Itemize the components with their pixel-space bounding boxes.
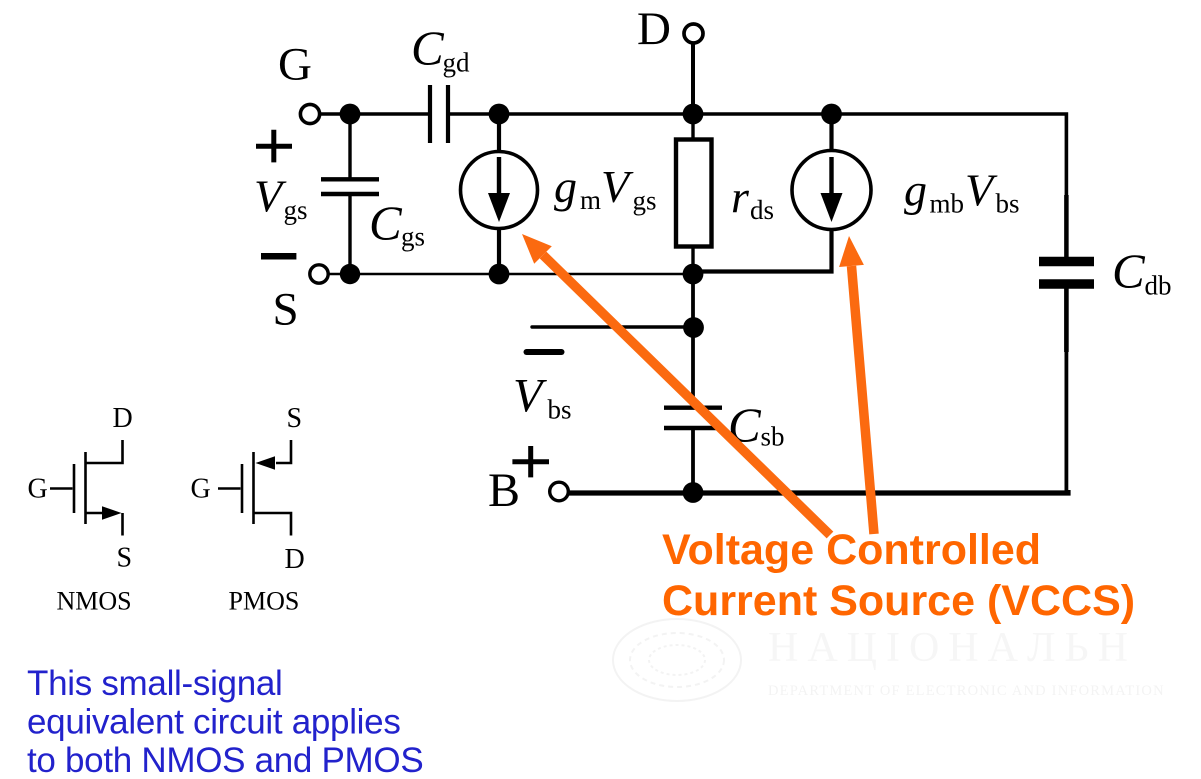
svg-text:D: D <box>113 403 133 434</box>
wire bulk vertical to Csb and B rail <box>691 274 695 407</box>
label Vgs <box>254 171 308 226</box>
transistor Q2 PMOS symbol <box>218 440 291 536</box>
watermark text <box>768 625 1165 699</box>
svg-text:PMOS: PMOS <box>229 587 300 616</box>
node Vbs stub junction <box>683 317 704 338</box>
svg-text:C: C <box>1112 244 1146 299</box>
wire top rail from G node to right corner down to Cdb <box>318 114 1066 257</box>
capacitor C_gd <box>430 85 448 143</box>
watermark seal <box>613 619 741 701</box>
annotation arrow to gmb source <box>839 236 874 534</box>
node top gmb junction <box>821 104 842 125</box>
wire right branch Cdb leads <box>1064 195 1069 257</box>
svg-text:bs: bs <box>548 395 572 425</box>
label Vbs plus sign <box>512 446 549 477</box>
wire B bottom rail <box>569 490 1069 493</box>
label gmVgs <box>554 161 657 216</box>
resistor r_ds <box>676 140 712 247</box>
label Vbs <box>513 370 572 425</box>
annotation arrow to gm source <box>522 234 830 535</box>
svg-text:G: G <box>191 474 211 505</box>
terminal S <box>310 265 328 283</box>
svg-text:r: r <box>731 171 750 222</box>
capacitor C_sb <box>664 408 722 428</box>
wire D stub <box>691 44 695 115</box>
label C_db <box>1112 244 1172 301</box>
svg-text:NMOS: NMOS <box>57 587 132 616</box>
wire S bottom rail <box>327 273 693 275</box>
svg-text:S: S <box>287 403 303 434</box>
wire Vbs reference stub <box>532 325 693 328</box>
capacitor C_gs <box>321 179 379 194</box>
label gmbVbs <box>904 165 1020 219</box>
node B rail junction <box>683 482 704 503</box>
terminal G <box>300 104 319 123</box>
svg-text:D: D <box>637 3 671 55</box>
wire rds leads <box>691 114 694 274</box>
current source U1 gmVgs <box>461 152 538 229</box>
svg-text:gd: gd <box>443 48 471 78</box>
svg-text:gs: gs <box>401 222 425 252</box>
svg-text:V: V <box>254 171 287 222</box>
svg-text:g: g <box>904 165 927 216</box>
node bottom rds junction <box>683 264 704 285</box>
svg-text:C: C <box>369 196 403 251</box>
annotation text VCCS <box>662 526 1135 625</box>
terminal D <box>684 24 703 43</box>
svg-text:C: C <box>411 21 445 76</box>
wire gm source leads <box>497 114 501 274</box>
label r_ds <box>731 171 774 225</box>
svg-text:mb: mb <box>930 189 965 219</box>
svg-text:ds: ds <box>750 195 774 225</box>
terminal B <box>550 482 569 501</box>
label C_sb <box>728 398 785 453</box>
label C_gd <box>411 21 470 78</box>
node bottom gm junction <box>489 264 510 285</box>
svg-text:gs: gs <box>284 195 308 225</box>
svg-text:НАЦIОНАЛЬН: НАЦIОНАЛЬН <box>768 625 1137 671</box>
svg-text:This small-signal: This small-signal <box>27 664 283 703</box>
node top Cgd-gm junction <box>489 104 510 125</box>
node G-rail junction <box>340 104 361 125</box>
node bottom S-Cgs junction <box>340 264 360 284</box>
svg-text:Current Source (VCCS): Current Source (VCCS) <box>662 577 1135 625</box>
svg-text:S: S <box>273 284 299 336</box>
wire Cgs leads <box>348 114 351 274</box>
wire gmb source leads and bottom jog <box>693 114 832 272</box>
svg-text:equivalent circuit applies: equivalent circuit applies <box>27 703 401 742</box>
svg-text:to both NMOS and PMOS: to both NMOS and PMOS <box>27 741 423 779</box>
note text blue <box>27 664 423 779</box>
node top rds junction <box>683 104 704 125</box>
svg-text:G: G <box>278 39 312 91</box>
svg-text:bs: bs <box>996 189 1020 219</box>
label Vgs minus sign <box>261 253 296 260</box>
svg-text:G: G <box>28 474 48 505</box>
label Vgs plus sign <box>256 130 292 163</box>
svg-text:D: D <box>285 544 305 575</box>
svg-text:B: B <box>488 464 520 517</box>
label C_gs <box>369 196 425 252</box>
svg-text:db: db <box>1145 271 1172 301</box>
capacitor C_db <box>1039 262 1094 285</box>
svg-text:g: g <box>554 161 577 212</box>
svg-text:DEPARTMENT OF ELECTRONIC AND I: DEPARTMENT OF ELECTRONIC AND INFORMATION <box>768 683 1165 699</box>
label Vbs minus sign <box>527 349 562 355</box>
current source U2 gmbVbs <box>792 151 871 230</box>
svg-text:gs: gs <box>633 186 657 216</box>
transistor Q1 NMOS symbol <box>50 440 123 536</box>
svg-text:Voltage Controlled: Voltage Controlled <box>662 526 1041 574</box>
svg-text:V: V <box>601 161 634 212</box>
svg-text:sb: sb <box>761 422 785 452</box>
svg-text:V: V <box>965 165 998 216</box>
svg-text:S: S <box>117 543 133 574</box>
svg-text:V: V <box>513 370 547 423</box>
svg-text:m: m <box>580 185 601 215</box>
